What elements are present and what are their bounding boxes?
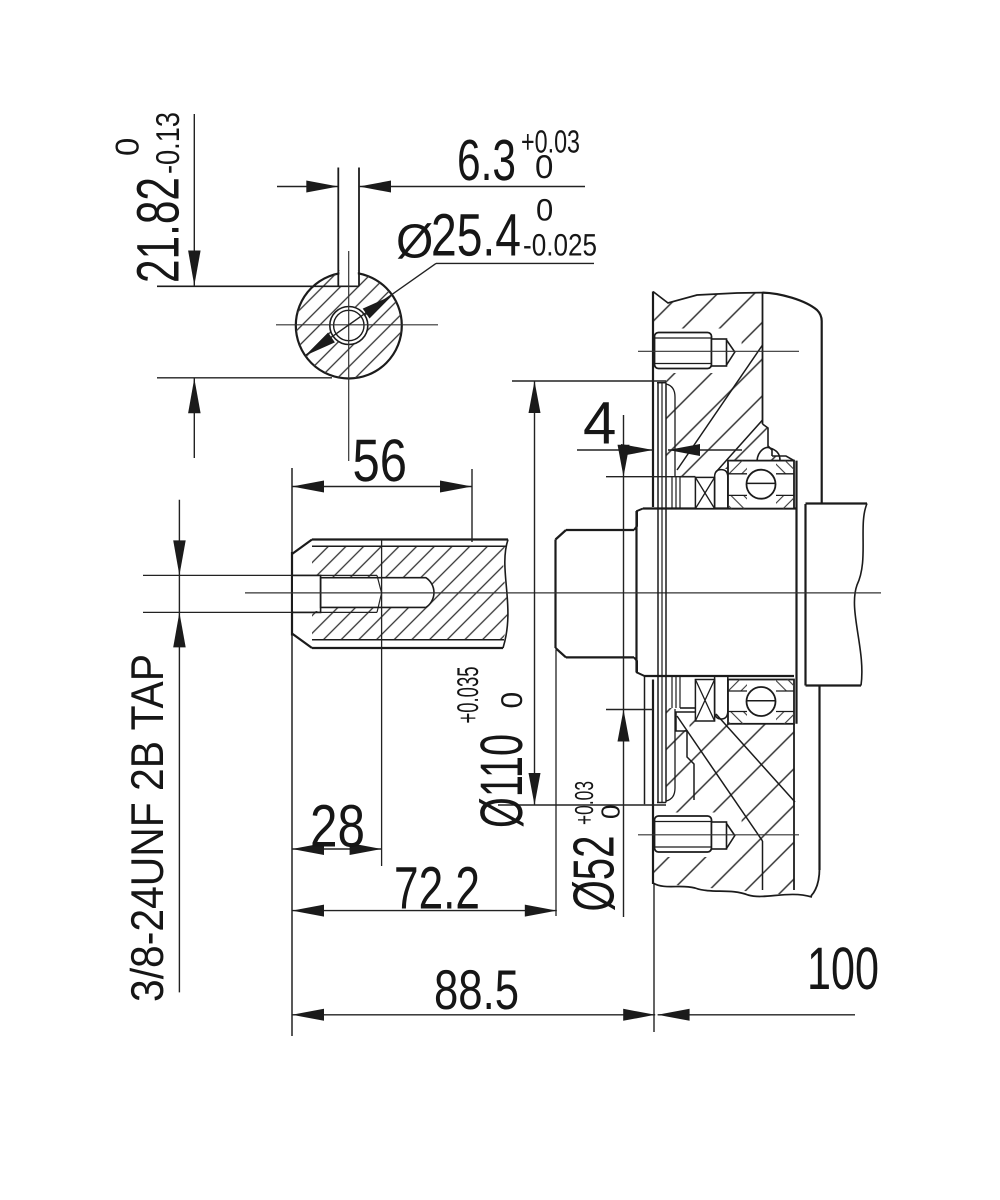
shaft step bottom chamfer — [556, 648, 567, 657]
mid section top edge — [566, 529, 634, 531]
svg-text:0: 0 — [109, 138, 146, 156]
washer top arch — [715, 470, 728, 509]
oil seal top box — [695, 477, 714, 508]
end view bore circle inner — [334, 310, 364, 340]
dimension 21.82 line lower segment — [193, 378, 195, 458]
svg-text:100: 100 — [807, 935, 879, 1002]
cover cone edge lower-left — [677, 716, 763, 841]
svg-text:-0.025: -0.025 — [523, 228, 597, 263]
tapped hole thread line top — [143, 574, 377, 576]
bolt top head inner line lower — [655, 363, 712, 365]
dimension 88.5 left arrow — [292, 1009, 324, 1021]
svg-text:21.82: 21.82 — [125, 177, 192, 283]
cover inner wall line bottom — [793, 724, 795, 890]
bolt bottom head inner line lower — [655, 846, 712, 848]
dimension 72.2 left arrow — [292, 905, 324, 917]
svg-text:25.4: 25.4 — [431, 202, 521, 269]
crankshaft break line (wavy) — [854, 504, 867, 686]
dimension 6.3 line left segment — [277, 186, 338, 188]
dimension 52 top arrow — [618, 445, 630, 477]
cover outer wall right edge bottom — [818, 686, 820, 871]
cover outer top curve — [763, 293, 822, 321]
shaft top edge — [312, 538, 508, 540]
cover inner profile steps bottom — [676, 712, 695, 800]
dimension 88.5 line — [292, 1014, 655, 1016]
bolt bottom shank — [712, 822, 727, 849]
svg-text:-0.13: -0.13 — [149, 112, 186, 174]
oil seal bottom box — [695, 680, 714, 722]
dimension 110 bottom arrow — [529, 773, 541, 805]
cover flange face top — [652, 292, 654, 508]
spigot lip line 1 — [657, 383, 659, 803]
dimension 110 line — [534, 381, 536, 805]
cover cone edge upper-left — [677, 345, 763, 470]
cover top break line (wavy) — [653, 292, 763, 304]
cover outer wall right edge top — [821, 321, 823, 504]
bolt bottom head outline — [655, 816, 712, 852]
svg-text:Ø: Ø — [396, 216, 433, 269]
svg-text:0: 0 — [596, 805, 626, 819]
ball bearing top — [728, 461, 794, 509]
crankshaft right section bottom edge — [806, 684, 862, 686]
svg-text:0: 0 — [535, 148, 553, 185]
spigot lip line 3 — [661, 383, 663, 803]
svg-text:+0.035: +0.035 — [452, 667, 485, 724]
diameter 25.4 leader underline — [436, 262, 594, 264]
tap callout upper arrow — [173, 540, 186, 575]
shaft hatching — [310, 544, 510, 642]
svg-text:4: 4 — [583, 390, 616, 457]
keyway slot outline — [321, 578, 434, 608]
dimension 6.3 left arrow — [306, 181, 338, 193]
dimension 100 left arrow — [658, 1009, 690, 1021]
svg-text:Ø110: Ø110 — [468, 734, 535, 828]
dimension 6.3 line right segment — [359, 186, 585, 188]
dimension 52 bottom arrow — [618, 710, 630, 742]
svg-text:3/8-24UNF 2B TAP: 3/8-24UNF 2B TAP — [121, 654, 173, 1002]
bolt top centerline — [638, 350, 799, 352]
cover bore hole bottom edge — [653, 675, 728, 677]
dimension 100 line — [658, 1014, 855, 1016]
dimension 4 right arrow — [668, 444, 700, 456]
crank journal top edge — [643, 507, 797, 509]
cover wall bottom hatching — [650, 672, 825, 902]
shaft left face edge — [291, 552, 293, 636]
bolt hole clearance top (white) — [655, 329, 742, 374]
shoulder to journal top — [634, 509, 643, 531]
extension line 28 right — [381, 540, 383, 866]
extension line 110 bottom — [498, 804, 666, 806]
crankshaft right section top edge — [806, 502, 868, 504]
diameter 25.4 dimension line across circle — [305, 263, 436, 355]
end view hatching — [290, 268, 408, 384]
shaft end view outer circle — [296, 273, 402, 379]
oil seal top cross — [695, 477, 714, 508]
bore detail lines bottom — [672, 676, 680, 708]
cover cone edge upper-right — [716, 420, 763, 472]
spigot lip step line top — [666, 384, 675, 476]
crankshaft right section left face — [804, 504, 806, 686]
dimension 56 line — [292, 486, 472, 488]
journal lower projection edge — [644, 676, 646, 804]
cover profile to bearing corner — [772, 456, 794, 461]
shaft step top chamfer — [556, 530, 567, 540]
dimension 56 right arrow — [440, 481, 472, 493]
shoulder to journal bottom — [634, 657, 645, 676]
svg-text:Ø52: Ø52 — [562, 836, 627, 912]
cover bottom break line (wavy) — [653, 883, 812, 897]
cover inner wall line top — [762, 293, 764, 424]
svg-text:88.5: 88.5 — [434, 958, 519, 1021]
end view keyway slot — [338, 168, 359, 287]
bolt top shank — [712, 339, 727, 366]
tapped hole white fill — [293, 576, 321, 611]
bore detail lines top — [672, 477, 680, 509]
shaft step face — [554, 540, 556, 649]
crank journal bottom edge — [645, 675, 795, 677]
bolt bottom centerline — [638, 834, 799, 836]
cover flange face bottom — [652, 680, 654, 885]
dimension 6.3 right arrow — [359, 181, 391, 193]
extension line 110 top — [512, 380, 666, 382]
svg-text:0: 0 — [496, 692, 529, 709]
cover outer wall lower foot curve — [811, 868, 820, 896]
dimension 56 left arrow — [292, 481, 324, 493]
extension line 52 top — [606, 476, 695, 478]
shaft left face line / extension line — [291, 468, 293, 1036]
dimension 21.82 line upper segment — [193, 114, 195, 286]
crank journal right edge / bearing inner face — [795, 461, 797, 724]
svg-text:6.3: 6.3 — [457, 128, 516, 193]
svg-text:+0.03: +0.03 — [569, 781, 599, 825]
spigot lip bottom edge — [657, 802, 666, 804]
shaft top chamfer line — [312, 545, 506, 547]
bolt top head outline — [655, 333, 712, 369]
keyway slot white cut — [339, 267, 357, 286]
cover cone edge lower-right — [716, 714, 795, 802]
bolt hole clearance bottom (white) — [655, 813, 742, 858]
dimension 28 left arrow — [292, 843, 324, 855]
cover flange face extension to dimension — [653, 884, 655, 1032]
extension line 21.82 bottom (circle tangent) — [157, 377, 332, 379]
casting dome over bearing — [757, 448, 780, 461]
svg-text:56: 56 — [353, 427, 408, 494]
bolt bottom head inner line upper — [655, 821, 712, 823]
bolt top tip cone — [727, 340, 735, 365]
diameter 25.4 arrow upper-right — [363, 295, 393, 318]
tapped hole drill cone — [377, 575, 382, 612]
keyway slot white fill — [321, 578, 434, 608]
dimension 88.5 right arrow — [623, 1009, 655, 1021]
dimension 4 line right — [668, 449, 742, 451]
end view vertical centerline — [348, 251, 350, 461]
dimension 52 line — [623, 415, 625, 917]
bolt top head inner line upper — [655, 337, 712, 339]
svg-text:72.2: 72.2 — [394, 855, 480, 922]
bolt bottom tip cone — [727, 824, 735, 849]
svg-text:28: 28 — [310, 793, 365, 860]
extension line 56 right — [471, 469, 473, 542]
cover inner wall lower vertical — [762, 841, 764, 890]
dimension 4 left arrow — [621, 444, 653, 456]
shaft bottom-left chamfer — [292, 634, 312, 649]
main centerline — [245, 592, 881, 594]
dimension 72.2 right arrow — [525, 905, 557, 917]
cover wall top hatching — [650, 288, 800, 483]
dimension 4 line left — [577, 449, 653, 451]
washer bottom arch — [715, 676, 728, 719]
tap callout dimension line — [178, 500, 180, 993]
dimension 28 line — [292, 848, 382, 850]
end view horizontal centerline — [276, 324, 438, 326]
dimension 110 top arrow — [529, 381, 541, 413]
dimension 72.2 line — [292, 910, 557, 912]
dimension 21.82 upper arrow — [188, 251, 201, 286]
tap callout lower arrow — [173, 612, 186, 647]
shaft top-left chamfer — [292, 540, 312, 555]
extension line 72.2 right — [555, 650, 557, 916]
cover bore hole top edge — [653, 508, 728, 510]
cover bore bottom edge — [680, 707, 695, 709]
ball bearing bottom — [728, 680, 794, 724]
diameter 25.4 arrow lower-left — [305, 333, 335, 356]
dimension 21.82 lower arrow — [188, 378, 201, 413]
spigot lip line 2 — [665, 383, 667, 803]
seal pocket step bottom (white) — [678, 710, 690, 730]
oil seal bottom cross — [695, 680, 714, 722]
end view bore circle outer — [330, 307, 368, 345]
tapped hole thread line bottom — [143, 611, 377, 613]
crank journal left edge — [635, 511, 637, 673]
shaft bottom edge — [312, 647, 503, 649]
shaft bottom chamfer line — [312, 639, 504, 641]
keyway floor / extension line 21.82 top — [157, 285, 359, 287]
cover bore top edge — [680, 476, 695, 478]
extension line 52 bottom — [606, 709, 653, 711]
dimension 28 right arrow — [350, 843, 382, 855]
cover inner profile steps top — [763, 424, 773, 456]
mid section bottom edge — [566, 656, 634, 658]
tapped hole bore outline — [292, 575, 321, 612]
shaft break line (wavy) — [503, 540, 508, 649]
spigot lip step line bottom — [666, 709, 675, 801]
spigot lip top edge — [657, 382, 666, 384]
svg-text:0: 0 — [536, 193, 553, 228]
